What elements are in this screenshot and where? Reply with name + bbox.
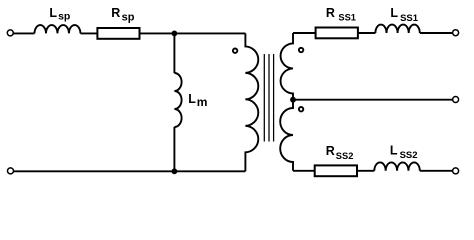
wire — [293, 170, 315, 172]
terminal input bottom-left — [8, 168, 14, 174]
inductor Lss2 — [374, 162, 420, 170]
transformer core — [264, 54, 273, 142]
terminal output bottom-right — [453, 168, 459, 174]
node junction bottom of Lm — [172, 168, 178, 174]
wire — [140, 32, 246, 34]
polarity dot secondary 2 — [299, 107, 303, 111]
wire bottom rail — [14, 170, 246, 172]
resistor Rss2 — [315, 165, 357, 176]
transformer primary winding — [245, 33, 258, 171]
inductor Lss1 — [375, 25, 419, 33]
wire — [357, 170, 374, 172]
transformer secondary winding 1 — [281, 33, 293, 100]
terminal input top-left — [7, 30, 13, 36]
wire — [80, 32, 97, 34]
resistor Rss1 — [316, 28, 358, 39]
terminal output middle-right — [453, 97, 459, 103]
polarity dot primary — [233, 49, 237, 53]
resistor Rsp — [97, 28, 139, 39]
wire center tap rail — [293, 99, 453, 101]
inductor Lm — [174, 73, 181, 127]
wire — [358, 32, 376, 34]
node center tap — [290, 97, 296, 103]
wire — [14, 32, 35, 34]
transformer secondary winding 2 — [280, 100, 293, 171]
wire — [293, 32, 316, 34]
wire — [173, 127, 175, 171]
inductor Lsp — [35, 25, 81, 33]
polarity dot secondary 1 — [299, 48, 303, 52]
wire — [173, 33, 175, 73]
terminal output top-right — [453, 30, 459, 36]
wire — [420, 32, 453, 34]
node junction top of Lm — [172, 31, 178, 37]
wire — [420, 170, 453, 172]
